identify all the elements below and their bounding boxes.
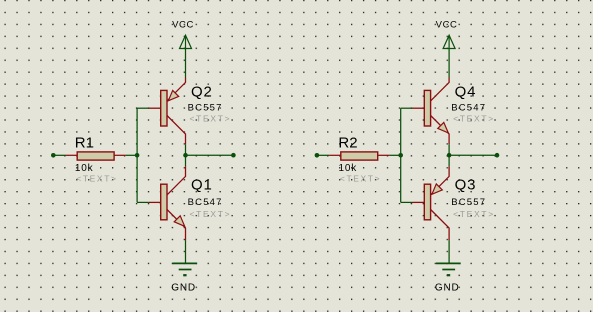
svg-text:<TEXT>: <TEXT> [76,174,117,184]
wire output (left) [186,154,234,156]
transistor Q3 emitter arrow [432,184,442,194]
transistor Q3 (PNP) [413,166,450,240]
svg-text:<TEXT>: <TEXT> [190,113,232,123]
svg-text:BC547: BC547 [451,103,486,114]
transistor Q1 (NPN) [149,166,186,240]
transistor Q4 (NPN) [413,78,450,145]
svg-text:VCC: VCC [172,19,194,30]
transistor Q1 base bar [161,184,167,220]
wire Q1 emitter to GND [185,240,187,263]
wire junction to Q3 emitter [448,155,450,166]
svg-text:<TEXT>: <TEXT> [340,174,381,184]
transistor Q2 (PNP) [149,78,186,145]
resistor R2 [329,152,389,160]
svg-text:R2: R2 [338,134,357,151]
svg-text:VCC: VCC [436,19,458,30]
ground symbol GND (right) [436,263,461,275]
svg-text:<TEXT>: <TEXT> [190,209,232,219]
svg-text:GND: GND [435,283,460,294]
wire R2 right [389,154,400,156]
wire end dot (R2 left) [315,153,320,158]
junction node (emitters/output, right) [447,153,452,158]
junction node (collectors/output, left) [183,153,188,158]
svg-text:<TEXT>: <TEXT> [453,209,495,219]
wire end dot (left output) [231,153,236,158]
svg-text:<TEXT>: <TEXT> [453,113,495,123]
svg-text:Q3: Q3 [455,177,477,194]
wire Q4 emitter to output node [448,144,450,155]
power symbol VCC (right) [443,35,455,48]
transistor Q1 emitter arrow [174,216,185,227]
wire junction to Q1 collector [185,155,187,166]
wire R2 left [317,154,329,156]
svg-text:10k: 10k [75,163,94,174]
wire R1 right [126,154,137,156]
wire VCC to Q2 emitter [185,49,187,78]
transistor Q3 base bar [424,184,430,220]
transistor Q2 emitter arrow [168,90,178,100]
node R1/base junction (left) [135,153,140,158]
transistor Q4 emitter arrow [438,122,449,132]
transistor Q4 base bar [424,90,430,126]
svg-text:BC557: BC557 [451,197,486,208]
power symbol VCC (left) [180,35,192,48]
wire VCC to Q4 collector [448,49,450,78]
wire base bus (right) [401,108,413,202]
node R2/base junction (right) [398,153,403,158]
svg-text:Q2: Q2 [191,83,213,100]
transistor Q2 base bar [161,90,167,126]
resistor R1 [66,152,126,160]
ground symbol GND (left) [172,263,197,275]
svg-text:GND: GND [171,283,196,294]
svg-text:10k: 10k [339,163,358,174]
wire output (right) [449,154,497,156]
svg-text:BC547: BC547 [188,197,223,208]
wire end dot (R1 left) [51,153,56,158]
wire end dot (right output) [495,153,500,158]
svg-text:BC557: BC557 [188,103,223,114]
wire Q3 collector to GND [448,240,450,263]
wire base bus (left) [137,108,149,202]
svg-text:Q4: Q4 [455,83,477,100]
wire Q2 collector to output node [185,144,187,155]
svg-text:Q1: Q1 [191,177,213,194]
svg-text:R1: R1 [75,134,94,151]
wire R1 left [53,154,65,156]
